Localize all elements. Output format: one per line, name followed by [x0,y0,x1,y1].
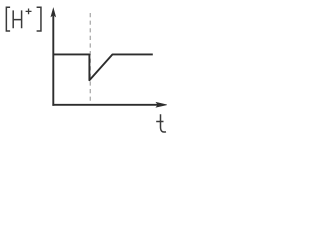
left bracket [6,7,10,31]
right bracket [37,7,41,31]
concentration curve [53,54,153,80]
x-axis [52,102,166,107]
y-axis [51,8,56,106]
dashed vertical guide line [89,13,91,104]
label [H+] [6,7,41,31]
label t [156,114,166,132]
plus superscript [26,9,32,15]
H [13,10,21,28]
